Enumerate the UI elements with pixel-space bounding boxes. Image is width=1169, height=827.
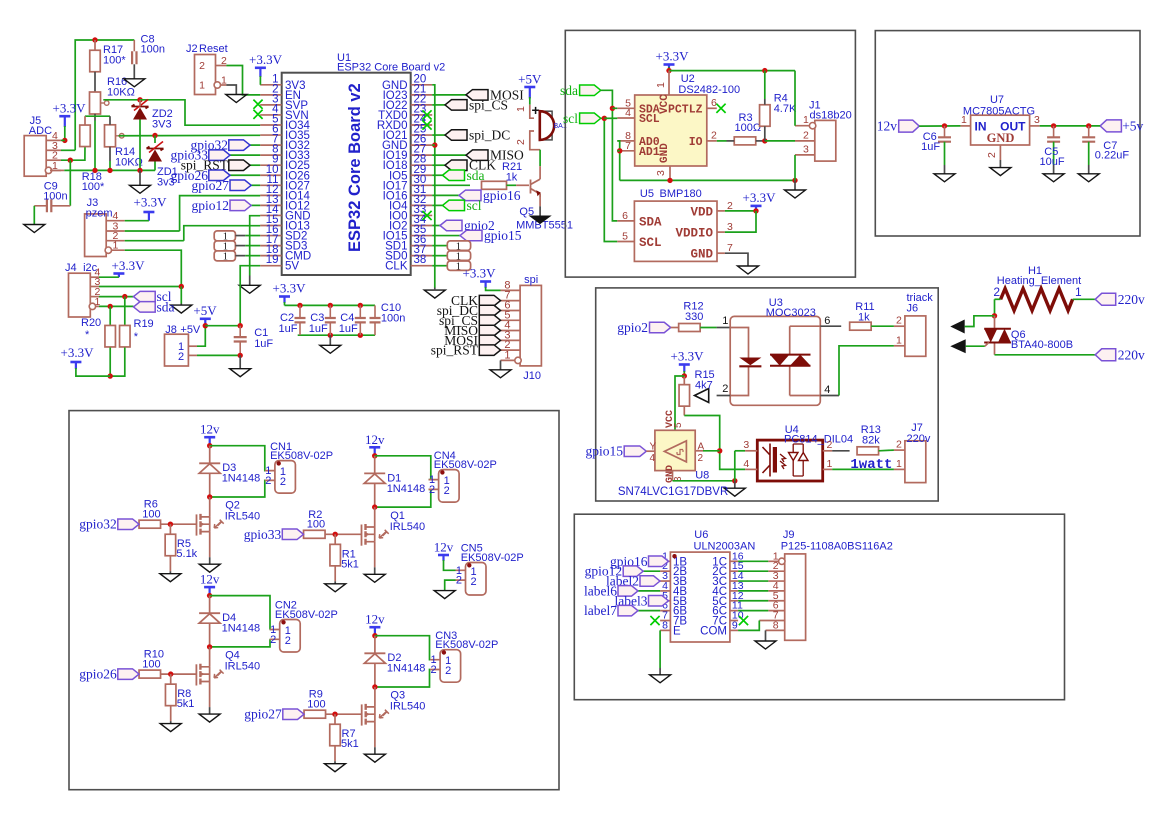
J10 pin 6 bbox=[501, 310, 521, 312]
svg-text:4: 4 bbox=[625, 107, 631, 119]
svg-text:2: 2 bbox=[280, 476, 286, 488]
U1 pin 38 CLK bbox=[411, 265, 433, 267]
junction ZD1 top bbox=[152, 133, 157, 138]
power +3.3V (J3) bbox=[143, 211, 154, 214]
J4 pin 3 bbox=[90, 286, 99, 288]
ground Q5 bbox=[531, 216, 550, 223]
U2 pin1 VCC lead bbox=[668, 71, 670, 95]
CN3 pin stubs bbox=[430, 660, 440, 670]
svg-text:1k: 1k bbox=[858, 312, 870, 324]
svg-text:gpio33: gpio33 bbox=[244, 527, 282, 542]
svg-text:2: 2 bbox=[471, 576, 477, 588]
svg-text:100: 100 bbox=[307, 519, 325, 531]
svg-text:J4: J4 bbox=[65, 262, 77, 274]
wire J3 pin2 bbox=[125, 240, 184, 242]
svg-text:EK508V-02P: EK508V-02P bbox=[275, 609, 338, 621]
wire U6 4C to J9 bbox=[738, 590, 768, 592]
svg-text:2: 2 bbox=[430, 664, 436, 676]
D3 top lead bbox=[209, 446, 211, 464]
power +3.3V (U5) bbox=[751, 205, 762, 208]
svg-text:100n: 100n bbox=[141, 44, 165, 56]
svg-text:pzem: pzem bbox=[86, 208, 113, 220]
junction bbox=[297, 303, 302, 308]
U2 pin 3 GND lead bbox=[669, 166, 671, 180]
svg-text:U7: U7 bbox=[990, 94, 1004, 106]
U5 pin 7 GND bbox=[717, 252, 725, 254]
svg-text:100*: 100* bbox=[103, 55, 126, 67]
U5 pin 3 VDDIO bbox=[717, 231, 725, 233]
svg-text:1: 1 bbox=[961, 114, 967, 126]
power +3.3V (C2) bbox=[279, 295, 290, 298]
U4 pin1 stub bbox=[823, 468, 833, 470]
svg-text:10uF: 10uF bbox=[1040, 156, 1065, 168]
1-pin connector 3 bbox=[214, 251, 235, 261]
R8 bottom lead bbox=[170, 706, 172, 721]
U3 internal LED bbox=[730, 328, 748, 396]
junction R20/R19 bottom bbox=[108, 373, 113, 378]
no-connect X PCTLZ bbox=[716, 104, 725, 113]
CN3 pin1 marker dot bbox=[442, 650, 446, 654]
J7 pin1 bbox=[894, 468, 905, 470]
resistor R20 bbox=[105, 325, 116, 347]
net label flag MISO (J10) bbox=[479, 325, 500, 336]
wire +3.3V to J1 pin1 bbox=[794, 71, 796, 126]
ZD2 top lead bbox=[139, 100, 141, 107]
wire SD2 bbox=[432, 265, 447, 267]
net label flag label6 bbox=[618, 586, 638, 597]
ground C9 bbox=[24, 225, 45, 233]
ground R7 bbox=[325, 764, 346, 772]
J10 pin 7 bbox=[501, 300, 521, 302]
ESP32 module U1 box bbox=[282, 73, 411, 275]
svg-text:2: 2 bbox=[722, 383, 728, 395]
junction R15 top bbox=[682, 373, 687, 378]
gate wire bbox=[161, 523, 197, 525]
U7 pin2 GND lead bbox=[999, 145, 1001, 160]
wire COM to J9 pin7 bbox=[738, 621, 759, 631]
svg-text:ULN2003AN: ULN2003AN bbox=[694, 541, 756, 553]
gnd wire bbox=[180, 287, 182, 304]
J9 pin 5 bbox=[768, 600, 784, 602]
U1 pin 22 IO22 bbox=[411, 104, 433, 106]
svg-text:12v: 12v bbox=[200, 572, 220, 587]
svg-text:2: 2 bbox=[698, 453, 704, 464]
net label flag spi_RST (J10) bbox=[479, 345, 500, 356]
wire OUT to +5v bbox=[1040, 125, 1100, 127]
heating element H1 zigzag bbox=[1001, 289, 1073, 311]
svg-text:1: 1 bbox=[113, 240, 119, 252]
C6 gnd stem bbox=[944, 165, 946, 174]
svg-text:5: 5 bbox=[622, 231, 628, 243]
wire J4 pin4 bbox=[99, 276, 119, 278]
svg-text:1k: 1k bbox=[506, 172, 518, 184]
U6 pin 1 1B bbox=[660, 560, 670, 562]
no-connect X 7B bbox=[650, 616, 659, 625]
J2 pin 1 bbox=[219, 84, 226, 86]
svg-text:6: 6 bbox=[622, 210, 628, 222]
J10 pin 8 bbox=[501, 289, 521, 291]
1-pin connector (SD/CLK) 1 bbox=[447, 241, 470, 250]
svg-text:2: 2 bbox=[993, 285, 1000, 299]
J10 pin 2 bbox=[501, 349, 521, 351]
U6 pin1 marker dot bbox=[672, 554, 676, 558]
svg-text:5.1k: 5.1k bbox=[176, 548, 197, 560]
J10 pin 1 bbox=[501, 359, 521, 361]
svg-text:gpio12: gpio12 bbox=[191, 198, 229, 213]
ZD1 top lead bbox=[154, 136, 156, 144]
wire gpio2 bbox=[432, 225, 440, 227]
R1 bottom lead bbox=[334, 566, 336, 581]
svg-text:220v: 220v bbox=[1118, 347, 1145, 362]
svg-text:COM: COM bbox=[700, 625, 727, 637]
svg-text:gpio27: gpio27 bbox=[244, 707, 282, 722]
R16 bottom lead bbox=[94, 114, 96, 121]
U1 pin 30 IO17 bbox=[411, 184, 433, 186]
R3 left lead bbox=[727, 140, 735, 142]
svg-text:ESP32 Core Board v2: ESP32 Core Board v2 bbox=[337, 62, 445, 74]
wire arrow2 to gate bbox=[966, 345, 985, 347]
U3 pin4 wire bbox=[820, 395, 839, 397]
wire AD1 bbox=[617, 150, 619, 152]
wire to C9 bbox=[69, 160, 71, 206]
wire cap top rail bbox=[285, 304, 376, 306]
U6 pin 14 3C bbox=[730, 580, 738, 582]
gnd stem bbox=[139, 170, 141, 185]
svg-text:gpio2: gpio2 bbox=[617, 320, 648, 335]
C2 bottom lead bbox=[299, 322, 301, 335]
U3 pin2 wire bbox=[717, 395, 731, 397]
U1 pin 37 SD0 bbox=[411, 255, 433, 257]
svg-text:4: 4 bbox=[650, 453, 656, 464]
U1 pin 12 IO14 bbox=[260, 194, 282, 196]
C10 top lead bbox=[374, 305, 376, 318]
junction bbox=[358, 333, 363, 338]
svg-text:U8: U8 bbox=[695, 470, 709, 482]
connector J1 bbox=[815, 120, 836, 161]
off-sheet arrow 2 bbox=[950, 339, 965, 353]
Q4 source lead bbox=[209, 682, 211, 708]
net label flag gpio26 bbox=[209, 170, 230, 181]
trimmer R16 bbox=[90, 92, 101, 114]
U8 buffer triangle bbox=[664, 441, 686, 462]
J4 pin 4 bbox=[90, 276, 99, 278]
net label flag gpio2 bbox=[440, 220, 462, 231]
svg-text:MOC3023: MOC3023 bbox=[766, 307, 816, 319]
svg-text:1N4148: 1N4148 bbox=[222, 473, 261, 485]
flag gpio15 bbox=[624, 446, 646, 457]
R7 top lead bbox=[334, 714, 336, 724]
wire GND pin14 bbox=[250, 216, 261, 276]
ground Q1 bbox=[364, 574, 385, 582]
svg-text:1: 1 bbox=[1075, 285, 1082, 299]
wire U4 pin2 to R13 bbox=[832, 450, 849, 452]
U5 pin 5 SCL bbox=[617, 241, 634, 243]
net label flag spi_DC (J10) bbox=[479, 305, 500, 316]
connector CN5 bbox=[466, 563, 487, 596]
connector J4 bbox=[69, 273, 91, 317]
svg-text:+3.3V: +3.3V bbox=[671, 349, 705, 364]
wire J8 pin2 bbox=[197, 354, 240, 356]
U1 pin 33 IO0 bbox=[411, 214, 433, 216]
svg-text:SN74LVC1G17DBVR: SN74LVC1G17DBVR bbox=[618, 486, 728, 498]
net label flag gpio15 bbox=[460, 230, 482, 241]
svg-text:U5: U5 bbox=[640, 188, 654, 200]
C8 top lead bbox=[133, 40, 135, 51]
net label flag gpio32 bbox=[118, 519, 139, 530]
no-connect X IO0 bbox=[422, 211, 431, 220]
svg-text:VCC: VCC bbox=[659, 94, 671, 114]
connector CN3 bbox=[440, 650, 461, 683]
connector J7 bbox=[905, 441, 926, 483]
wire bus bbox=[64, 169, 155, 171]
U2 pin 2 IO bbox=[707, 140, 717, 142]
U1 pin 18 CMD bbox=[260, 255, 282, 257]
junction J1 pin3 gnd bbox=[792, 178, 797, 183]
ground R8 bbox=[160, 724, 181, 732]
svg-text:Reset: Reset bbox=[199, 43, 228, 55]
svg-text:VDDIO: VDDIO bbox=[675, 227, 713, 241]
wire to U2 SCL bbox=[604, 117, 617, 119]
wire U4 pin1 to J7 pin1 bbox=[832, 468, 894, 470]
U6 pin 12 5C bbox=[730, 600, 738, 602]
power +3.3V (J4) bbox=[113, 272, 124, 275]
C9 right lead bbox=[51, 205, 70, 207]
svg-text:1uF: 1uF bbox=[339, 323, 358, 335]
svg-text:3: 3 bbox=[1034, 114, 1040, 126]
power 12v (Q3) bbox=[369, 626, 380, 629]
R3 right lead bbox=[756, 140, 765, 142]
svg-text:12v: 12v bbox=[365, 612, 385, 627]
capacitor C2 bbox=[295, 318, 306, 322]
MOSFET Q4 IRL540 bbox=[195, 664, 197, 685]
U1 pin 1 3V3 bbox=[260, 84, 282, 86]
wire U6 5C to J9 bbox=[738, 600, 768, 602]
connector J2 bbox=[195, 55, 216, 95]
junction gate R1 bbox=[333, 532, 338, 537]
R12 left lead bbox=[671, 327, 679, 329]
wire 12v to IN bbox=[919, 125, 960, 127]
wire to CN4 pin2 bbox=[375, 489, 431, 507]
svg-text:+5V: +5V bbox=[193, 303, 217, 318]
svg-text:gpio16: gpio16 bbox=[483, 188, 521, 203]
junction C1 bottom bbox=[238, 353, 243, 358]
resistor R9 bbox=[304, 710, 326, 718]
R4 top lead bbox=[764, 99, 766, 105]
J10 pin1 circle bbox=[515, 357, 521, 363]
wire U6 3C to J9 bbox=[738, 580, 768, 582]
C6 bottom wire bbox=[944, 142, 946, 165]
junction bbox=[107, 168, 112, 173]
svg-text:1uF: 1uF bbox=[279, 323, 298, 335]
U2 pin 5 SDA bbox=[617, 107, 634, 109]
svg-text:2: 2 bbox=[221, 55, 227, 67]
wire +3.3V rail bbox=[669, 70, 795, 72]
C1 top lead bbox=[239, 326, 241, 337]
net label flag sda bbox=[443, 170, 465, 181]
U6 pin 2 2B bbox=[660, 570, 670, 572]
power +3.3V (J10) bbox=[480, 280, 491, 283]
svg-text:spi: spi bbox=[524, 274, 538, 286]
C7 bottom wire bbox=[1088, 142, 1090, 165]
wire label2 bbox=[659, 580, 661, 582]
svg-text:2: 2 bbox=[711, 130, 717, 142]
svg-text:2: 2 bbox=[445, 665, 451, 677]
wire J4 pin3 bbox=[99, 286, 181, 288]
U1 pin 10 IO26 bbox=[260, 174, 282, 176]
svg-text:GND: GND bbox=[987, 131, 1015, 145]
svg-text:SDA: SDA bbox=[639, 215, 662, 229]
stub bbox=[235, 245, 245, 247]
net label flag gpio27 bbox=[283, 709, 304, 720]
net label flag gpio27 bbox=[230, 180, 251, 191]
net label flag CLK bbox=[445, 160, 467, 171]
wire +3.3V to 3V3 bbox=[259, 76, 261, 85]
resistor R10 bbox=[139, 670, 161, 678]
wire J8 pin1 bbox=[197, 326, 205, 347]
svg-text:IRL540: IRL540 bbox=[390, 701, 425, 713]
gnd stem bbox=[539, 206, 541, 216]
capacitor C3 bbox=[325, 318, 336, 322]
svg-text:gpio27: gpio27 bbox=[191, 178, 229, 193]
U1 pin 21 IO23 bbox=[411, 94, 433, 96]
U2 pin 4 SCL bbox=[617, 117, 634, 119]
wire spi_CS bbox=[432, 104, 445, 106]
svg-text:220v: 220v bbox=[1118, 292, 1145, 307]
CN1 pin1 marker dot bbox=[277, 461, 281, 465]
U1 pin 6 IO35 bbox=[260, 134, 282, 136]
connector J8 bbox=[165, 334, 189, 366]
connector J5 bbox=[24, 136, 46, 177]
Q1 source lead bbox=[374, 542, 376, 568]
U1 pin 28 IO18 bbox=[411, 164, 433, 166]
R5 top lead bbox=[169, 524, 171, 534]
U1 pin 13 IO12 bbox=[260, 204, 282, 206]
R18 top lead bbox=[84, 116, 86, 125]
resistor R15 bbox=[679, 385, 690, 407]
wire gpio16 bbox=[660, 560, 668, 562]
junction C6 bbox=[942, 123, 947, 128]
IC U7 MC7805ACTG bbox=[971, 115, 1030, 145]
wire label7 bbox=[638, 610, 660, 612]
ground U1 right bbox=[424, 290, 445, 298]
svg-text:sda: sda bbox=[157, 300, 175, 315]
svg-text:2: 2 bbox=[285, 635, 291, 647]
svg-text:EK508V-02P: EK508V-02P bbox=[435, 639, 498, 651]
U4 pin4 stub bbox=[745, 468, 757, 470]
IC U5 BMP180 bbox=[634, 201, 717, 261]
svg-text:VDD: VDD bbox=[690, 205, 713, 219]
resistor R11 bbox=[850, 322, 872, 330]
svg-text:2: 2 bbox=[456, 575, 462, 587]
gate wire bbox=[161, 673, 197, 675]
junction U2 GND bbox=[667, 178, 672, 183]
transistor Q5 MMBT5551 bbox=[531, 179, 541, 197]
connector CN2 bbox=[280, 620, 301, 653]
Q5 collector lead bbox=[539, 166, 541, 179]
U1 pin 7 IO32 bbox=[260, 144, 282, 146]
junction gate R7 bbox=[332, 712, 337, 717]
svg-text:100Ω: 100Ω bbox=[735, 122, 762, 134]
svg-text:1: 1 bbox=[803, 114, 809, 126]
ground C7 bbox=[1078, 174, 1099, 182]
svg-text:1N4148: 1N4148 bbox=[222, 623, 261, 635]
wire SD0 bbox=[432, 245, 447, 247]
wire spi_DC bbox=[432, 134, 445, 136]
zener ZD2 bbox=[132, 105, 149, 109]
wire gpio32 bbox=[250, 144, 260, 146]
resistor R6 bbox=[139, 520, 161, 528]
J3 pin 2 bbox=[106, 240, 125, 242]
off-sheet arrow 1 bbox=[950, 320, 964, 334]
stub bbox=[235, 255, 245, 257]
ground caps bbox=[320, 345, 341, 353]
U1 pin 17 SD3 bbox=[260, 245, 282, 247]
junction gnd U4 pin3 bbox=[732, 478, 737, 483]
Q3 drain lead bbox=[374, 687, 376, 707]
C10 bottom lead bbox=[374, 322, 376, 335]
MOSFET Q1 IRL540 bbox=[361, 525, 363, 546]
R14 bottom lead bbox=[109, 147, 111, 161]
wire bbox=[245, 245, 260, 247]
junction C1 top bbox=[238, 323, 243, 328]
wire J5 pin4 bbox=[61, 139, 65, 141]
Q3 source lead bbox=[374, 722, 376, 748]
J9 pin 8 bbox=[766, 629, 785, 631]
R4 top wire bbox=[764, 71, 766, 99]
R20 bottom wire bbox=[109, 348, 111, 377]
capacitor C6 bbox=[938, 137, 951, 141]
wire 12v to CN4 pin1 bbox=[375, 456, 431, 480]
net label flag scl bbox=[134, 291, 156, 302]
svg-text:2: 2 bbox=[803, 129, 809, 141]
svg-text:12v: 12v bbox=[434, 540, 454, 555]
D4 bottom lead bbox=[209, 623, 211, 647]
resistor R12 bbox=[679, 324, 701, 332]
ground J10 bbox=[490, 370, 511, 378]
C7 gnd stem bbox=[1088, 165, 1090, 174]
svg-text:1N4148: 1N4148 bbox=[387, 483, 426, 495]
J5 pin 2 bbox=[46, 159, 61, 161]
wire 12v to CN2 pin1 bbox=[210, 596, 270, 630]
junction 12v Q3 bbox=[372, 633, 377, 638]
wire SD1 bbox=[432, 255, 447, 257]
junction D1 bottom bbox=[372, 504, 377, 509]
wire to CN2 pin2 bbox=[210, 639, 270, 647]
net label flag gpio33 bbox=[282, 529, 303, 540]
wire J3 pin4 bbox=[125, 220, 149, 222]
svg-text:DS2482-100: DS2482-100 bbox=[678, 84, 740, 96]
C4 bottom lead bbox=[359, 322, 361, 335]
C8 gnd stem bbox=[133, 64, 135, 79]
ground Q3 bbox=[364, 754, 385, 762]
frame box power supply bbox=[875, 31, 1140, 236]
wire to CN3 pin2 bbox=[375, 670, 430, 688]
wire scl bbox=[432, 204, 442, 206]
svg-text:EK508V-02P: EK508V-02P bbox=[270, 450, 333, 462]
ground U5 bbox=[738, 266, 759, 274]
U6 pin 11 6C bbox=[730, 610, 738, 612]
wire MOSI bbox=[432, 94, 466, 96]
wire J3 pin3 bbox=[125, 230, 180, 232]
svg-text:P125-1108A0BS116A2: P125-1108A0BS116A2 bbox=[781, 541, 893, 553]
net label flag MOSI (J10) bbox=[479, 335, 500, 346]
J9 pin 4 bbox=[768, 590, 784, 592]
gnd stem bbox=[734, 481, 736, 488]
wire to J1 pin2 bbox=[765, 140, 795, 142]
net label flag gpio12 bbox=[623, 566, 643, 577]
capacitor C9 bbox=[47, 199, 51, 212]
svg-text:IRL540: IRL540 bbox=[390, 521, 425, 533]
